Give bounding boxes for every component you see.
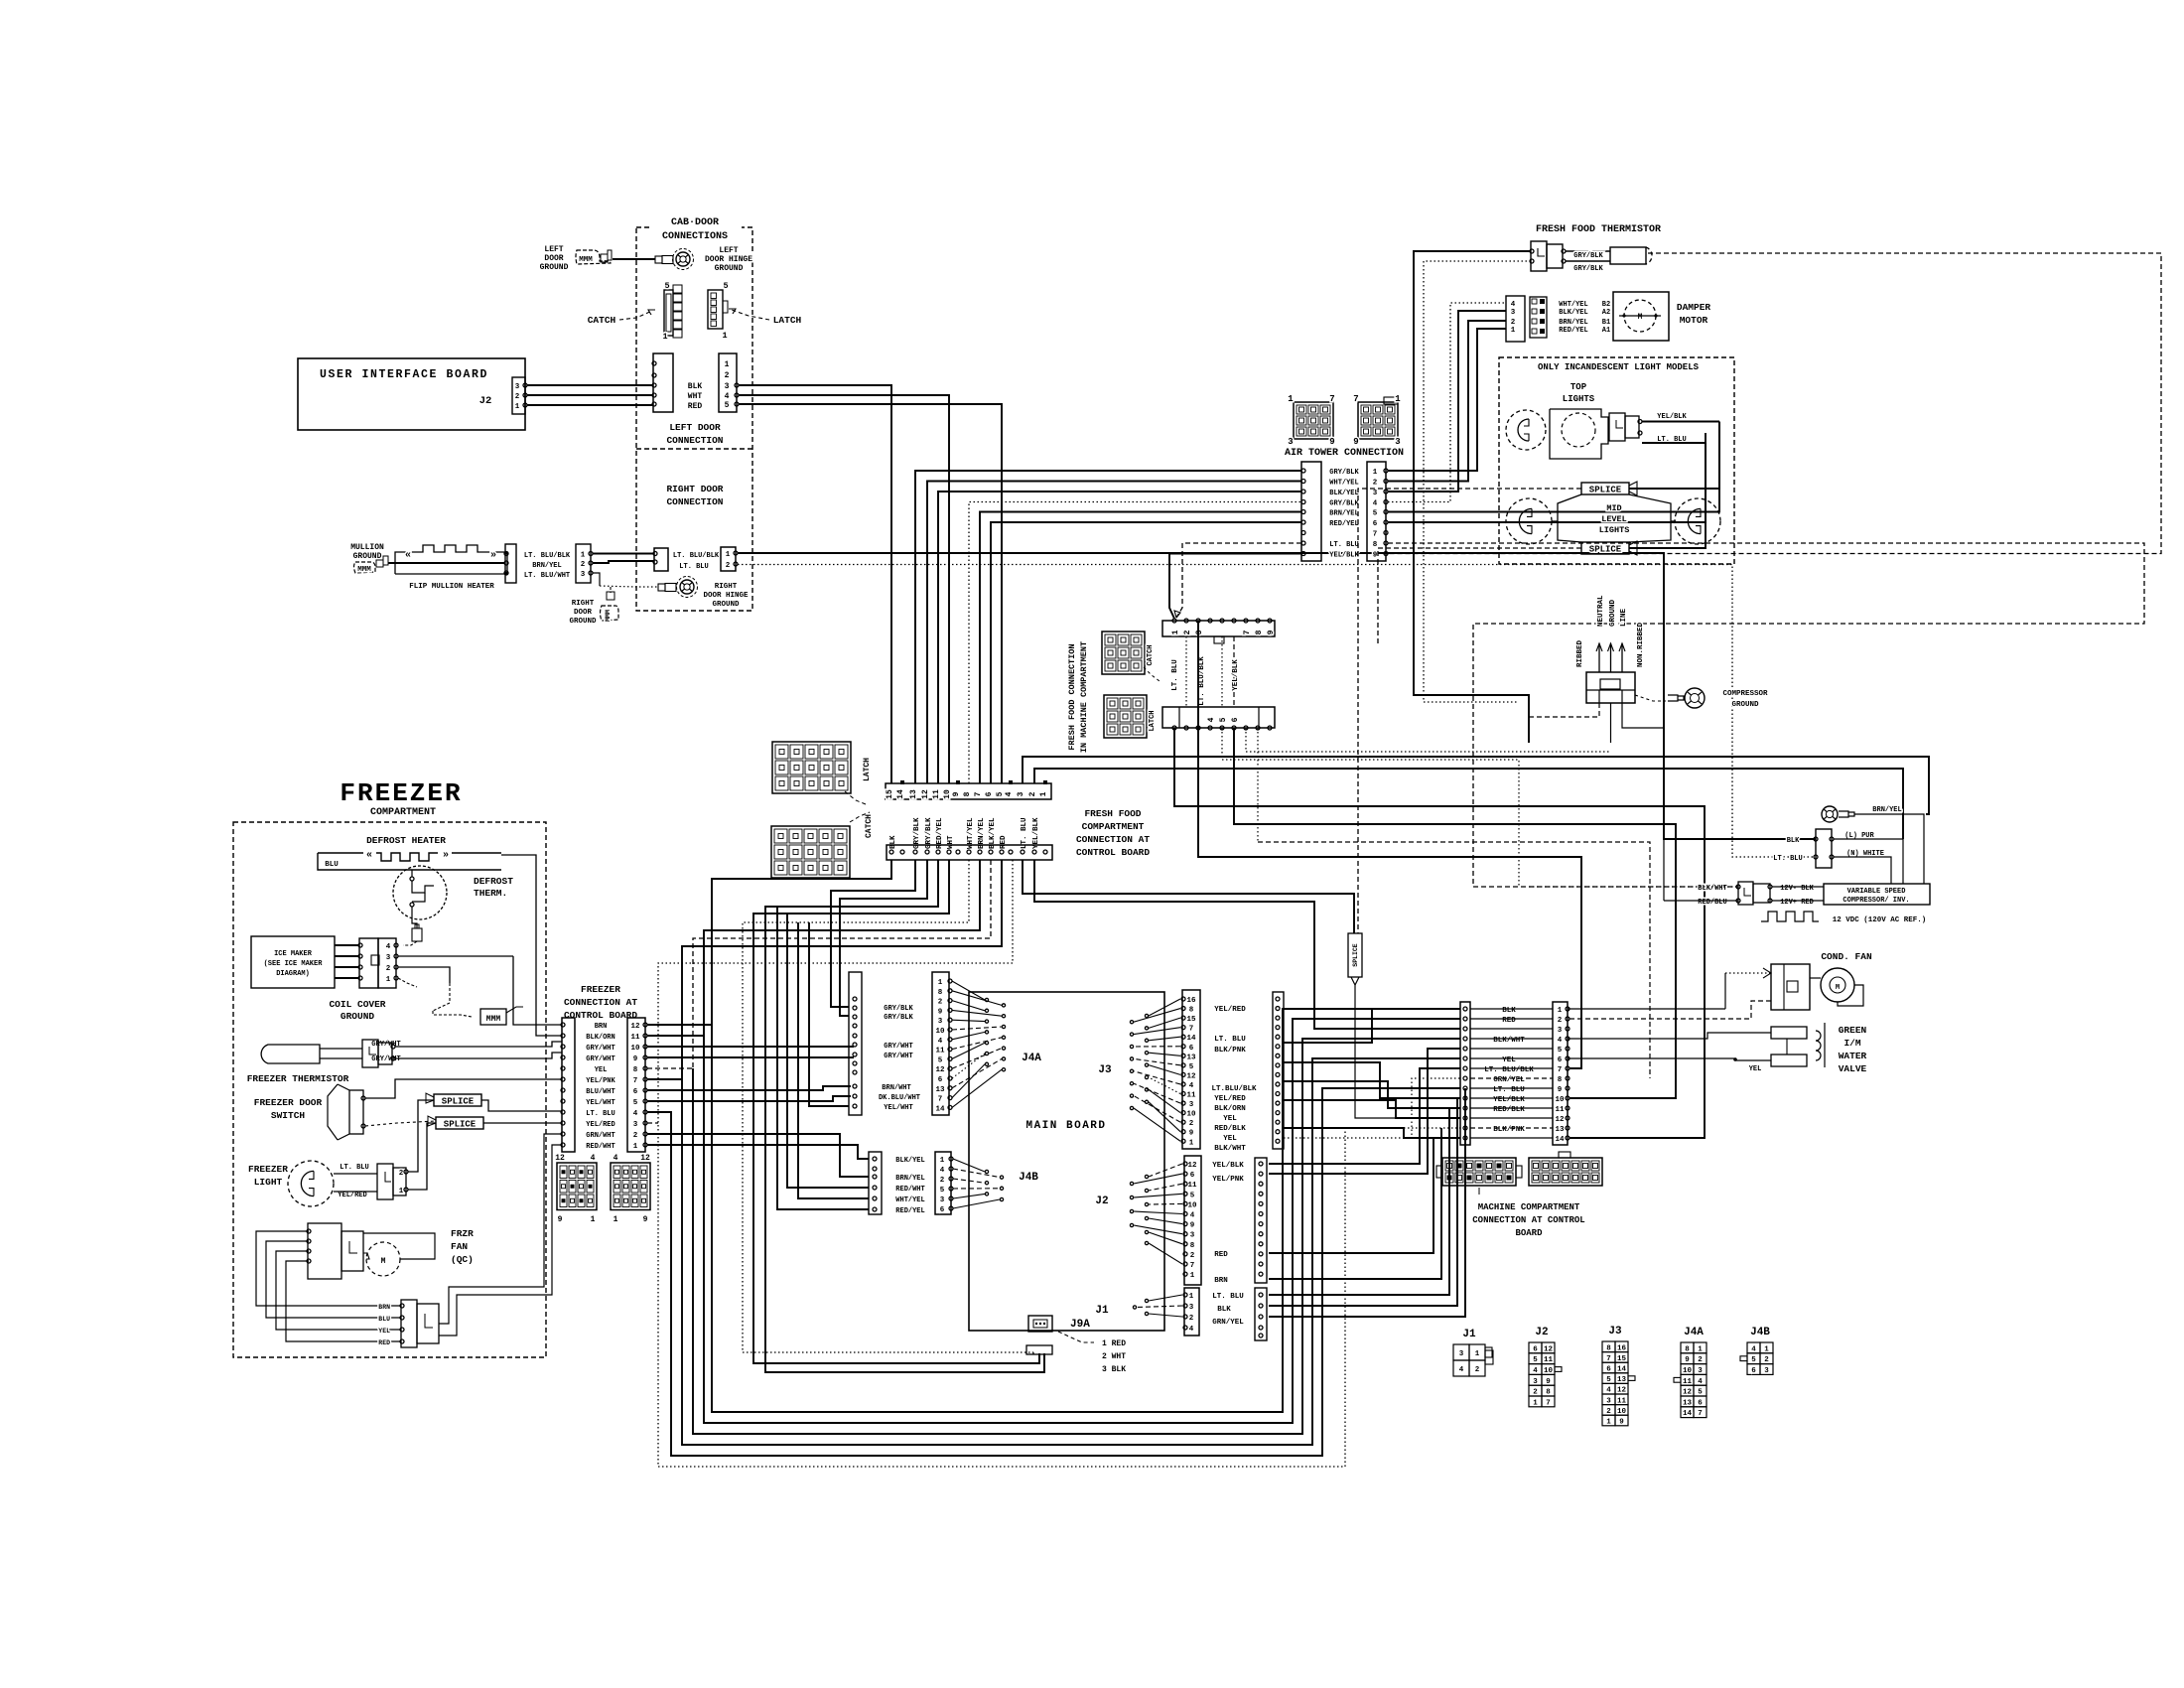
svg-text:5: 5	[723, 281, 728, 291]
svg-text:CONTROL BOARD: CONTROL BOARD	[1076, 847, 1150, 858]
svg-text:9: 9	[1619, 1419, 1624, 1427]
svg-text:1: 1	[726, 551, 731, 559]
svg-text:DOOR: DOOR	[544, 254, 563, 263]
svg-text:1: 1	[1190, 1272, 1195, 1280]
svg-text:10: 10	[1187, 1201, 1197, 1209]
svg-text:GRY/BLK: GRY/BLK	[925, 817, 933, 849]
svg-text:AIR TOWER CONNECTION: AIR TOWER CONNECTION	[1285, 448, 1404, 459]
svg-text:13: 13	[909, 789, 918, 799]
svg-text:6: 6	[938, 1076, 943, 1084]
svg-text:6: 6	[1189, 1045, 1194, 1053]
svg-text:FREEZER: FREEZER	[340, 778, 462, 808]
svg-text:DOOR HINGE: DOOR HINGE	[705, 255, 752, 264]
svg-text:A1: A1	[1602, 327, 1610, 335]
svg-text:BLK/WHT: BLK/WHT	[1214, 1145, 1246, 1153]
svg-text:J2: J2	[479, 395, 492, 407]
J3 strip right	[1273, 992, 1284, 1149]
svg-text:3: 3	[1764, 1367, 1769, 1375]
svg-text:1: 1	[581, 552, 586, 560]
svg-text:2: 2	[1028, 791, 1037, 796]
svg-text:5: 5	[996, 791, 1005, 796]
wires freezer thermistor to connection	[395, 1042, 562, 1047]
svg-text:9: 9	[1373, 552, 1378, 560]
fresh food compartment connection control board strip	[887, 845, 1052, 860]
svg-text:FREEZER THERMISTOR: FREEZER THERMISTOR	[247, 1073, 349, 1084]
svg-text:LATCH: LATCH	[1149, 710, 1157, 731]
svg-text:2: 2	[726, 562, 731, 570]
12V connector	[1738, 882, 1753, 905]
svg-text:7: 7	[1353, 394, 1358, 404]
svg-text:SPLICE: SPLICE	[442, 1097, 475, 1107]
top lights connector	[1609, 413, 1625, 441]
wire ice maker to freezer connection row	[513, 956, 562, 1025]
svg-text:YEL/BLK: YEL/BLK	[1493, 1096, 1525, 1104]
machine compartment connector wires across	[1470, 1008, 1553, 1010]
svg-text:3: 3	[938, 1018, 943, 1026]
svg-text:LATCH: LATCH	[863, 758, 872, 781]
J1 fanout	[1149, 1295, 1182, 1301]
svg-text:13: 13	[1186, 1054, 1196, 1061]
svg-text:GREEN: GREEN	[1839, 1025, 1867, 1036]
wires user interface board to left door connection	[527, 384, 653, 386]
svg-text:GRY/WHT: GRY/WHT	[586, 1045, 614, 1053]
svg-text:WHT/YEL: WHT/YEL	[1559, 301, 1587, 309]
svg-text:WHT/YEL: WHT/YEL	[967, 817, 975, 849]
svg-text:FRESH FOOD CONNECTION: FRESH FOOD CONNECTION	[1067, 643, 1077, 750]
left door hinge ground lug and screw	[655, 256, 662, 263]
mid light bulb left	[1506, 498, 1552, 544]
splice lower	[1581, 542, 1629, 554]
svg-text:MOTOR: MOTOR	[1680, 315, 1708, 326]
svg-text:14: 14	[1555, 1136, 1565, 1144]
svg-text:5: 5	[1558, 1047, 1563, 1055]
svg-text:1: 1	[725, 360, 730, 369]
cab door box divider	[636, 448, 752, 450]
wires freezer rows to bundle verticals	[647, 1024, 712, 1026]
svg-text:J3: J3	[1608, 1326, 1622, 1337]
svg-text:LEFT DOOR: LEFT DOOR	[669, 422, 721, 433]
right door ground	[593, 573, 600, 586]
svg-text:9: 9	[643, 1215, 648, 1224]
left door connector at door	[719, 353, 737, 412]
wire left door ground to hinge	[613, 258, 655, 260]
svg-text:BRN/WHT: BRN/WHT	[882, 1084, 910, 1092]
svg-text:3: 3	[725, 382, 730, 391]
svg-text:COND. FAN: COND. FAN	[1821, 951, 1872, 962]
svg-text:BRN/YEL: BRN/YEL	[1872, 806, 1901, 814]
svg-text:RIGHT: RIGHT	[715, 583, 738, 591]
wires air tower right strip to damper connector	[1388, 329, 1506, 471]
mullion heater connector pair	[505, 544, 516, 583]
svg-text:7: 7	[1373, 531, 1378, 539]
svg-text:BLK/YEL: BLK/YEL	[1559, 309, 1587, 317]
svg-text:DOOR: DOOR	[574, 609, 593, 617]
svg-text:RED: RED	[1000, 835, 1008, 849]
svg-text:8: 8	[1255, 630, 1264, 634]
svg-text:RED: RED	[378, 1339, 390, 1346]
svg-text:ONLY INCANDESCENT LIGHT MODELS: ONLY INCANDESCENT LIGHT MODELS	[1538, 362, 1700, 372]
svg-text:FAN: FAN	[451, 1241, 468, 1252]
svg-text:GRY/WHT: GRY/WHT	[371, 1055, 400, 1063]
svg-text:CONNECTIONS: CONNECTIONS	[662, 231, 728, 242]
svg-text:11: 11	[935, 1048, 945, 1055]
svg-text:LT. BLU: LT. BLU	[586, 1110, 614, 1118]
svg-text:B2: B2	[1602, 301, 1610, 309]
flip mullion heater element	[395, 545, 507, 574]
svg-text:5: 5	[725, 401, 730, 410]
svg-text:BLK: BLK	[1217, 1306, 1231, 1314]
wires freezer light to connection	[408, 1100, 434, 1172]
svg-text:RIGHT DOOR: RIGHT DOOR	[666, 484, 723, 494]
svg-text:LEVEL: LEVEL	[1601, 514, 1627, 524]
wire right door pin1 long run to EL plug BLK	[738, 553, 1816, 839]
svg-text:YEL/BLK: YEL/BLK	[1657, 413, 1687, 421]
9-pin connector strip upper	[1162, 621, 1275, 636]
svg-text:GRY/BLK: GRY/BLK	[1573, 252, 1603, 260]
ice maker connector	[359, 938, 378, 988]
wires J1 strip right risers	[1269, 1108, 1449, 1295]
wires freezer door switch	[365, 1079, 562, 1098]
top light bulb left	[1506, 410, 1546, 450]
svg-text:1: 1	[1288, 394, 1294, 404]
svg-text:BRN/YEL: BRN/YEL	[532, 562, 561, 570]
svg-text:4: 4	[940, 1167, 945, 1175]
svg-text:COMPARTMENT: COMPARTMENT	[1082, 821, 1145, 832]
svg-text:8: 8	[1373, 541, 1378, 549]
svg-text:GRY/BLK: GRY/BLK	[913, 817, 921, 849]
svg-text:12: 12	[921, 789, 930, 799]
svg-text:7: 7	[1190, 1262, 1195, 1270]
J4A fanout	[952, 981, 985, 1000]
freezer connection right connector	[627, 1018, 645, 1152]
svg-text:YEL: YEL	[1223, 1135, 1237, 1143]
fresh food thermistor connector	[1531, 241, 1547, 271]
wire defrost therm down to fuse	[412, 907, 417, 928]
svg-text:12V+ RED: 12V+ RED	[1780, 899, 1814, 907]
svg-text:CONNECTION: CONNECTION	[666, 496, 723, 507]
svg-text:4: 4	[725, 392, 730, 401]
svg-text:BLU: BLU	[378, 1316, 390, 1323]
svg-text:COMPRESSOR/ INV.: COMPRESSOR/ INV.	[1843, 897, 1909, 905]
svg-text:J4A: J4A	[1684, 1327, 1704, 1338]
svg-text:J4A: J4A	[1022, 1053, 1041, 1064]
svg-text:2: 2	[633, 1132, 638, 1140]
svg-text:3: 3	[940, 1196, 945, 1204]
J3 fanout	[1149, 999, 1180, 1016]
svg-text:COIL COVER: COIL COVER	[329, 999, 385, 1010]
svg-text:BLK/ORN: BLK/ORN	[1214, 1105, 1246, 1113]
svg-text:SPLICE: SPLICE	[1352, 943, 1359, 967]
svg-text:NEUTRAL: NEUTRAL	[1597, 595, 1605, 627]
vertical wires between 9-pin strips	[1185, 636, 1187, 707]
svg-text:LATCH: LATCH	[773, 315, 802, 326]
svg-text:4: 4	[1511, 301, 1516, 309]
svg-text:RED/YEL: RED/YEL	[895, 1207, 924, 1215]
svg-text:BLK/WHT: BLK/WHT	[1493, 1037, 1525, 1045]
svg-text:6: 6	[1231, 717, 1240, 722]
svg-text:«: «	[366, 850, 372, 861]
freezer grid connector plain	[611, 1163, 650, 1210]
svg-text:12: 12	[555, 1154, 565, 1163]
svg-text:13: 13	[1555, 1126, 1565, 1134]
svg-text:GRN/WHT: GRN/WHT	[586, 1132, 614, 1140]
svg-text:1: 1	[1373, 469, 1378, 477]
air tower dashed wires to fresh food connection in machine compartment	[1176, 543, 1301, 618]
catch 15-pin grid connector	[771, 826, 850, 878]
svg-text:7: 7	[1329, 394, 1334, 404]
damper motor connector	[1506, 296, 1525, 342]
SPLICE vertical near main board	[1348, 933, 1362, 977]
svg-text:10: 10	[943, 789, 952, 799]
svg-text:5: 5	[1373, 510, 1378, 518]
svg-text:YEL: YEL	[595, 1066, 608, 1074]
machine compartment left strip	[1460, 1002, 1470, 1145]
svg-text:9: 9	[1329, 437, 1334, 447]
svg-text:BLK: BLK	[1502, 1007, 1516, 1015]
svg-text:GRN/YEL: GRN/YEL	[1212, 1319, 1244, 1327]
svg-text:MMM: MMM	[605, 610, 612, 622]
svg-text:4: 4	[591, 1154, 596, 1163]
cab-door connections dashed box	[636, 227, 752, 611]
left door connector at cabinet	[653, 353, 673, 412]
svg-text:1: 1	[1606, 1419, 1611, 1427]
wires to cond fan	[1725, 972, 1771, 974]
freezer compartment dashed box	[233, 822, 546, 1357]
svg-text:RED: RED	[688, 402, 703, 411]
svg-text:BLK/YEL: BLK/YEL	[895, 1157, 924, 1165]
wires splices to freezer connection	[481, 1100, 562, 1111]
svg-text:J1: J1	[1462, 1329, 1476, 1340]
defrost heater element	[318, 852, 363, 854]
svg-text:BLU/WHT: BLU/WHT	[586, 1088, 614, 1096]
svg-text:6: 6	[1751, 1367, 1756, 1375]
svg-text:4: 4	[633, 1110, 638, 1118]
svg-text:GRY/BLK: GRY/BLK	[884, 1014, 913, 1022]
svg-text:WHT: WHT	[688, 392, 703, 401]
svg-text:B1: B1	[1602, 319, 1610, 327]
mid level lights outline	[1558, 494, 1581, 542]
svg-text:14: 14	[1683, 1410, 1693, 1418]
machine compartment grid connector plain	[1529, 1158, 1602, 1186]
svg-text:MMM: MMM	[579, 256, 593, 264]
svg-text:1: 1	[386, 976, 391, 984]
svg-text:USER INTERFACE BOARD: USER INTERFACE BOARD	[320, 368, 488, 381]
svg-text:LIGHTS: LIGHTS	[1563, 394, 1595, 404]
svg-text:7: 7	[1698, 1410, 1703, 1418]
svg-text:2: 2	[1189, 1315, 1194, 1323]
J9A external connector	[1026, 1345, 1052, 1354]
svg-text:1: 1	[1189, 1139, 1194, 1147]
svg-text:LT. BLU: LT. BLU	[1171, 659, 1179, 691]
wires thermistor to left and down	[1414, 251, 1531, 743]
J2 strip right	[1255, 1158, 1267, 1283]
svg-text:GROUND: GROUND	[540, 263, 569, 272]
square wave symbol	[1761, 912, 1819, 921]
wires mullion connector to right door connection	[593, 553, 654, 555]
svg-text:BRN: BRN	[595, 1023, 608, 1031]
svg-text:SPLICE: SPLICE	[444, 1120, 477, 1130]
svg-text:M: M	[1638, 313, 1643, 322]
svg-text:LIGHT: LIGHT	[254, 1177, 283, 1188]
J2 fanout	[1149, 1164, 1182, 1177]
svg-text:BOARD: BOARD	[1515, 1228, 1543, 1238]
svg-text:LT. BLU: LT. BLU	[1329, 541, 1358, 549]
svg-text:2: 2	[938, 999, 943, 1007]
svg-text:4: 4	[1005, 791, 1014, 796]
svg-text:2: 2	[581, 561, 586, 569]
right door connector at cabinet	[654, 548, 668, 571]
svg-text:YEL/PNK: YEL/PNK	[586, 1077, 615, 1085]
svg-text:GRY/WHT: GRY/WHT	[884, 1043, 912, 1051]
svg-text:BLK/PNK: BLK/PNK	[1493, 1126, 1525, 1134]
svg-text:2: 2	[1189, 1120, 1194, 1128]
machine compartment grid connector hatched	[1442, 1158, 1516, 1186]
svg-text:YEL: YEL	[1749, 1065, 1762, 1073]
svg-text:CAB·DOOR: CAB·DOOR	[671, 217, 719, 228]
compressor terminal box	[1586, 672, 1635, 703]
svg-text:RED/YEL: RED/YEL	[936, 817, 944, 849]
svg-text:DIAGRAM): DIAGRAM)	[276, 970, 310, 978]
svg-text:3: 3	[1459, 1350, 1464, 1358]
dashed loop thermistor to air tower pin9	[1388, 253, 2161, 554]
connector J2 on user interface board	[512, 377, 525, 414]
svg-text:11: 11	[1187, 1182, 1197, 1190]
latch 15-pin grid connector	[772, 742, 851, 793]
svg-text:6: 6	[1558, 1056, 1563, 1064]
svg-text:LT. BLU/BLK: LT. BLU/BLK	[1198, 656, 1206, 706]
svg-text:RED/WHT: RED/WHT	[895, 1186, 924, 1194]
defrost thermostat	[393, 866, 447, 919]
svg-text:CONNECTION AT: CONNECTION AT	[1076, 834, 1150, 845]
svg-text:THERM.: THERM.	[474, 888, 507, 899]
wires below compressor box	[1529, 703, 1599, 717]
splice freezer 1	[434, 1094, 481, 1106]
wires left door connection to fresh food connection	[739, 385, 891, 783]
svg-text:3: 3	[633, 1121, 638, 1129]
svg-text:LEFT: LEFT	[719, 246, 738, 255]
svg-text:YEL/WHT: YEL/WHT	[884, 1104, 912, 1112]
svg-text:7: 7	[974, 791, 983, 796]
svg-text:GROUND: GROUND	[341, 1011, 375, 1022]
wire defrost heater top pin	[411, 870, 413, 877]
svg-text:RED/BLK: RED/BLK	[1493, 1106, 1525, 1114]
svg-text:J2: J2	[1535, 1327, 1548, 1338]
svg-text:8: 8	[963, 791, 972, 796]
svg-text:8: 8	[1189, 1007, 1194, 1015]
svg-text:7: 7	[1546, 1399, 1551, 1407]
svg-text:16: 16	[1186, 997, 1196, 1005]
svg-text:4: 4	[938, 1038, 943, 1046]
svg-text:11: 11	[630, 1034, 640, 1042]
svg-text:LT. BLU/BLK: LT. BLU/BLK	[673, 552, 720, 560]
svg-text:5: 5	[940, 1187, 945, 1195]
svg-text:2: 2	[515, 393, 520, 401]
svg-text:3: 3	[581, 571, 586, 579]
svg-text:CONNECTION AT CONTROL: CONNECTION AT CONTROL	[1472, 1215, 1584, 1225]
svg-text:CONNECTION AT: CONNECTION AT	[564, 997, 637, 1008]
green im water valve	[1771, 1027, 1807, 1039]
svg-text:YEL: YEL	[1223, 1115, 1237, 1123]
user interface board	[298, 358, 525, 430]
svg-text:3: 3	[1395, 437, 1400, 447]
svg-text:IN MACHINE COMPARTMENT: IN MACHINE COMPARTMENT	[1079, 641, 1089, 753]
air tower connector strip right	[1367, 462, 1386, 561]
svg-text:1: 1	[938, 979, 943, 987]
svg-text:1: 1	[591, 1215, 596, 1224]
freezer grid connector hatched	[557, 1163, 597, 1210]
svg-text:3: 3	[1511, 309, 1516, 317]
svg-text:»: »	[443, 850, 449, 861]
ice maker box	[251, 936, 335, 988]
svg-text:YEL/PNK: YEL/PNK	[1212, 1176, 1244, 1184]
svg-text:3 BLK: 3 BLK	[1102, 1365, 1126, 1374]
svg-text:YEL/BLK: YEL/BLK	[1232, 659, 1240, 691]
svg-text:12: 12	[1186, 1072, 1196, 1080]
svg-text:GROUND: GROUND	[715, 264, 744, 273]
svg-text:MACHINE COMPARTMENT: MACHINE COMPARTMENT	[1478, 1202, 1580, 1212]
svg-text:2: 2	[1558, 1017, 1563, 1025]
svg-text:MMM: MMM	[357, 566, 371, 574]
svg-text:BRN/YEL: BRN/YEL	[1329, 510, 1358, 518]
staircase wires from control board strip down-left	[712, 860, 1460, 1412]
svg-text:1: 1	[1171, 630, 1180, 634]
only incandescent light models dashed box	[1499, 357, 1734, 564]
svg-text:9: 9	[633, 1055, 638, 1063]
svg-text:LT. BLU: LT. BLU	[679, 563, 708, 571]
svg-text:WHT/YEL: WHT/YEL	[1329, 480, 1358, 488]
svg-text:9: 9	[1190, 1222, 1195, 1230]
svg-text:1: 1	[515, 403, 520, 411]
svg-text:COMPARTMENT: COMPARTMENT	[370, 807, 436, 818]
svg-text:GROUND: GROUND	[1731, 701, 1759, 709]
wire right door pin2 long dotted run to EL plug LT. BLU	[738, 565, 1816, 858]
svg-text:3: 3	[1189, 1101, 1194, 1109]
wire YEL/BLK down to splice upper right	[1629, 422, 1719, 490]
svg-text:1: 1	[1395, 394, 1401, 404]
svg-text:6: 6	[1190, 1172, 1195, 1180]
svg-text:3: 3	[1190, 1232, 1195, 1240]
svg-text:3: 3	[1189, 1304, 1194, 1312]
svg-text:7: 7	[1189, 1026, 1194, 1034]
svg-text:RED/YEL: RED/YEL	[1329, 520, 1358, 528]
svg-text:10: 10	[1186, 1111, 1196, 1119]
svg-text:11: 11	[1555, 1106, 1565, 1114]
svg-text:BLU: BLU	[325, 861, 339, 869]
svg-text:1: 1	[633, 1143, 638, 1151]
svg-text:BLK/YEL: BLK/YEL	[1329, 490, 1358, 497]
svg-text:YEL/BLK: YEL/BLK	[1329, 552, 1359, 560]
svg-text:1: 1	[399, 1188, 404, 1196]
EL plug ground lug	[1839, 811, 1848, 817]
svg-text:LT.BLU/BLK: LT.BLU/BLK	[1211, 1085, 1257, 1093]
svg-text:1: 1	[1039, 791, 1048, 796]
svg-text:J2: J2	[1095, 1196, 1108, 1207]
svg-text:2: 2	[940, 1177, 945, 1185]
svg-text:«: «	[405, 550, 411, 561]
top light holder shape	[1550, 409, 1608, 459]
svg-text:TOP: TOP	[1570, 382, 1587, 392]
svg-text:1: 1	[722, 331, 727, 341]
wires into 12V connector	[1529, 886, 1738, 888]
svg-text:6: 6	[940, 1206, 945, 1214]
svg-text:FLIP MULLION HEATER: FLIP MULLION HEATER	[409, 583, 494, 591]
svg-text:10: 10	[1555, 1096, 1565, 1104]
svg-text:LT. BLU: LT. BLU	[1212, 1293, 1244, 1301]
svg-text:14: 14	[935, 1105, 945, 1113]
svg-text:BRN/YEL: BRN/YEL	[895, 1175, 924, 1183]
svg-text:CATCH: CATCH	[588, 315, 616, 326]
svg-text:NON.RIBBED: NON.RIBBED	[1637, 622, 1645, 667]
